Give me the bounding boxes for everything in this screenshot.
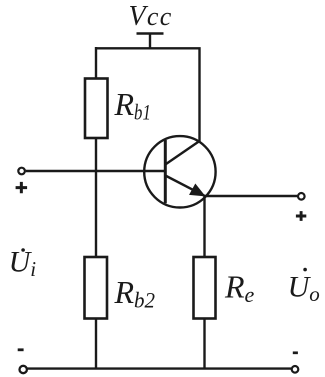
svg-text:Vcc: Vcc <box>129 1 173 32</box>
